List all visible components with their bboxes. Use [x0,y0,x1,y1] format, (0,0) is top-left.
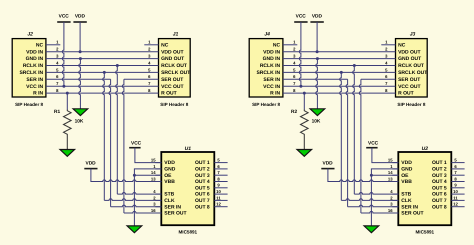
power symbol VDD (feeds U2 VBB pin 13) [321,161,334,169]
svg-text:VDD: VDD [164,160,175,166]
svg-text:10: 10 [216,189,221,194]
svg-text:SER OUT: SER OUT [398,77,420,83]
junction: OE joins GND drop [133,174,136,177]
wire row1 NC stub at J3 [381,44,395,46]
svg-text:OUT 5: OUT 5 [432,185,447,191]
wire row6 SER OUT segment to J1.6 [124,78,159,80]
svg-text:OUT 8: OUT 8 [195,204,210,210]
svg-text:13: 13 [388,176,393,181]
svg-text:OUT 1: OUT 1 [195,160,210,166]
junction: VDD rail on row 2 [316,50,319,53]
U2 pin numbers right side (5-12) [453,158,458,207]
svg-text:VDD: VDD [75,14,86,20]
wire into U2 SER IN pin 3 [348,205,399,207]
svg-text:J3: J3 [410,32,416,38]
svg-text:VDD: VDD [86,161,97,167]
svg-text:11: 11 [216,195,221,200]
svg-text:VBB: VBB [164,179,175,185]
svg-text:R IN: R IN [33,91,43,97]
wire row2 VDD: J2.2 to J1.2 [46,51,159,53]
svg-text:VDD OUT: VDD OUT [398,49,421,55]
power symbol VCC (top, feeds J2 VCC IN) [57,14,70,22]
svg-text:OUT 2: OUT 2 [432,167,447,173]
junction: OE joins GND drop [370,174,373,177]
wire row5 SRCLK: J4.5 to J3.5 [283,71,396,73]
wire U2 SER OUT up to row 6 (J3 SER OUT) [359,79,361,213]
wire GND drop from row 3 [316,59,318,109]
U2 pin numbers left side (15,1,14,13,4,2,3,16) [388,158,393,213]
wire row7 VCC: J4.7 to J3.7 [283,85,396,87]
connector J4 (SIP Header 8) [249,39,283,97]
junction: tap on row 5 [103,71,106,74]
connector J2 (SIP Header 8) [12,39,46,97]
svg-text:NC: NC [398,42,406,48]
svg-text:VCC IN: VCC IN [263,84,280,90]
wire row1 NC stub at J4 [283,44,297,46]
svg-text:MIC5891: MIC5891 [178,230,197,235]
svg-text:J2: J2 [27,32,33,38]
svg-text:GND OUT: GND OUT [398,56,421,62]
J3 pin numbers 1-8 [385,40,388,93]
svg-text:OUT 6: OUT 6 [432,192,447,198]
svg-text:RCLK OUT: RCLK OUT [398,63,424,69]
svg-text:OUT 7: OUT 7 [195,198,210,204]
power symbol VDD (top, feeds J4 VDD IN) [310,14,323,22]
svg-text:16: 16 [388,208,393,213]
svg-text:OUT 1: OUT 1 [432,160,447,166]
IC U2 MIC5891 [398,152,451,225]
svg-text:SER IN: SER IN [401,204,418,210]
junction: tap on row 5 [340,71,343,74]
power symbol VCC (feeds U1 VDD pin 15) [129,141,141,148]
svg-text:R1: R1 [54,109,60,115]
svg-text:12: 12 [453,202,458,207]
svg-text:R IN: R IN [270,91,280,97]
svg-text:VCC IN: VCC IN [26,84,43,90]
IC U1 MIC5891 [161,152,214,225]
power symbol VDD (feeds U1 VBB pin 13) [84,161,97,169]
junction: GND drop on row 3 [79,57,82,60]
junction: VDD rail on row 2 [79,50,82,53]
svg-text:OUT 4: OUT 4 [195,179,210,185]
connector J1 (SIP Header 8) [159,39,191,97]
svg-text:SRCLK IN: SRCLK IN [19,70,43,76]
svg-text:SER OUT: SER OUT [161,77,183,83]
svg-text:OUT 4: OUT 4 [432,179,447,185]
junction: R1 on row 8 [66,92,69,95]
wire VCC rail down to VCC IN row 7 [62,22,64,86]
svg-text:SER OUT: SER OUT [401,211,423,217]
wire SER tap: row 6 down to U2 SER IN [346,79,348,206]
svg-text:OUT 7: OUT 7 [432,198,447,204]
svg-text:SIP Header 8: SIP Header 8 [397,102,425,107]
wire U1 OE pin 14 stub to GND net [134,174,161,176]
svg-text:VDD: VDD [401,160,412,166]
wire VCC to U1 VDD pin 15 [135,148,161,163]
wire row6 SER OUT segment to J3.6 [361,78,396,80]
svg-text:SIP Header 8: SIP Header 8 [252,102,280,107]
ground symbol (below R1) [60,150,75,157]
svg-text:R OUT: R OUT [398,91,414,97]
wire row8 R: J4.8 to J3.8 [283,92,396,94]
U2 right pin stubs OUT1-OUT8 [451,163,464,207]
svg-text:OE: OE [164,173,172,179]
wire into U2 SER OUT pin 16 [361,211,398,213]
J1 pin numbers 1-8 [148,40,151,93]
svg-text:SER IN: SER IN [164,204,181,210]
ground symbol (below U2) [364,226,379,233]
svg-text:OUT 3: OUT 3 [195,173,210,179]
svg-text:VCC: VCC [59,14,70,20]
svg-text:VCC OUT: VCC OUT [161,84,184,90]
junction: R2 on row 8 [303,92,306,95]
junction: GND drop on row 3 [316,57,319,60]
wire row3 GND: J2.3 to J1.3 [46,58,159,60]
svg-text:SRCLK OUT: SRCLK OUT [161,70,190,76]
wire U1 GND pin 1 and OE pin 14 to ground [134,169,161,226]
wire SER tap: row 6 down to U1 SER IN [109,79,111,206]
svg-text:15: 15 [388,158,393,163]
svg-text:10K: 10K [75,118,84,124]
svg-text:VDD: VDD [323,161,334,167]
ground symbol (row 3 net) [310,109,325,116]
svg-text:16: 16 [151,208,156,213]
wire row2 VDD: J4.2 to J3.2 [283,51,396,53]
svg-text:R2: R2 [291,109,297,115]
wire VDD rail down to VDD IN row 2 [79,22,81,52]
svg-text:VDD: VDD [312,14,323,20]
svg-text:STB: STB [401,192,411,198]
svg-text:SER IN: SER IN [263,77,280,83]
wire U2 GND pin 1 and OE pin 14 to ground [371,169,398,226]
U1 pin numbers left side (15,1,14,13,4,2,3,16) [151,158,156,213]
svg-text:NC: NC [273,42,281,48]
wire U1 SER OUT up to row 6 (J1 SER OUT) [122,79,124,213]
svg-text:OUT 2: OUT 2 [195,167,210,173]
wire into U1 SER OUT pin 16 [124,211,161,213]
svg-text:RCLK OUT: RCLK OUT [161,63,187,69]
svg-text:14: 14 [388,170,393,175]
U1 pin numbers right side (5-12) [216,158,221,207]
svg-text:VCC OUT: VCC OUT [398,84,421,90]
svg-text:J1: J1 [173,32,179,38]
wire into U2 CLK pin 2 [341,199,398,201]
svg-text:OUT 3: OUT 3 [432,173,447,179]
svg-text:10: 10 [453,189,458,194]
U1 right pin stubs OUT1-OUT8 [214,163,227,207]
ground symbol (row 3 net) [73,109,88,116]
svg-text:SER IN: SER IN [26,77,43,83]
svg-text:U1: U1 [185,146,192,152]
U1 left pin stubs [155,163,161,213]
power symbol VCC (feeds U2 VDD pin 15) [366,141,378,148]
wire row4 RCLK: J2.4 to J1.4 [46,65,159,67]
svg-text:U2: U2 [422,146,429,152]
svg-text:GND IN: GND IN [26,56,44,62]
wire VCC to U2 VDD pin 15 [372,148,398,163]
wire row7 VCC: J2.7 to J1.7 [46,85,159,87]
wire RCLK tap: row 4 down to U1 STB [116,66,118,195]
svg-text:GND: GND [164,167,176,173]
junction: VCC rail on row 7 [62,85,65,88]
svg-text:VCC: VCC [131,141,142,147]
wire into U1 SER IN pin 3 [111,205,162,207]
wire row1 NC stub at J1 [144,44,158,46]
J2 pin numbers 1-8 [56,40,59,93]
wire into U2 STB pin 4 [354,193,398,195]
wire row3 GND: J4.3 to J3.3 [283,58,396,60]
svg-text:VDD IN: VDD IN [26,49,43,55]
svg-text:GND: GND [401,167,413,173]
wire row5 SRCLK: J2.5 to J1.5 [46,71,159,73]
svg-text:NC: NC [36,42,44,48]
svg-text:VDD IN: VDD IN [263,49,280,55]
svg-text:MIC5891: MIC5891 [415,230,434,235]
power symbol VDD (top, feeds J2 VDD IN) [73,14,86,22]
svg-text:RCLK IN: RCLK IN [23,63,44,69]
ground symbol (below U1) [127,226,142,233]
connector J3 (SIP Header 8) [396,39,428,97]
svg-text:VBB: VBB [401,179,412,185]
svg-text:SRCLK OUT: SRCLK OUT [398,70,427,76]
J4 pin numbers 1-8 [293,40,296,93]
wire VDD to U2 VBB pin 13 [328,169,398,182]
wire row8 R: J2.8 to J1.8 [46,92,159,94]
svg-text:RCLK IN: RCLK IN [260,63,281,69]
wire SRCLK tap: row 5 down to U2 CLK [340,72,342,200]
svg-text:VCC: VCC [368,141,379,147]
svg-text:VDD OUT: VDD OUT [161,49,184,55]
svg-text:VCC: VCC [296,14,307,20]
svg-text:OUT 8: OUT 8 [432,204,447,210]
svg-text:J4: J4 [264,32,270,38]
svg-text:R OUT: R OUT [161,91,177,97]
svg-text:GND IN: GND IN [263,56,281,62]
junction: tap on row 4 [116,64,119,67]
svg-text:CLK: CLK [164,198,175,204]
wire GND drop from row 3 [79,59,81,109]
svg-text:15: 15 [151,158,156,163]
wire into U1 CLK pin 2 [104,199,161,201]
svg-text:SIP Header 8: SIP Header 8 [160,102,188,107]
U2 left pin stubs [392,163,398,213]
wire row4 RCLK: J4.4 to J3.4 [283,65,396,67]
svg-text:OE: OE [401,173,409,179]
wire row1 NC stub at J2 [46,44,60,46]
svg-text:GND OUT: GND OUT [161,56,184,62]
svg-text:10K: 10K [312,118,321,124]
wire U2 OE pin 14 stub to GND net [371,174,398,176]
wire VCC rail down to VCC IN row 7 [299,22,301,86]
ground symbol (below R2) [297,150,312,157]
wire SRCLK tap: row 5 down to U1 CLK [103,72,105,200]
resistor R2 10K pulldown from row 8 [303,93,305,109]
svg-text:14: 14 [151,170,156,175]
svg-text:SRCLK IN: SRCLK IN [256,70,280,76]
svg-text:12: 12 [216,202,221,207]
svg-text:STB: STB [164,192,174,198]
resistor R1 10K pulldown from row 8 [66,93,68,109]
junction: tap on row 4 [353,64,356,67]
wire VDD to U1 VBB pin 13 [91,169,161,182]
svg-text:SER OUT: SER OUT [164,211,186,217]
svg-text:OUT 6: OUT 6 [195,192,210,198]
wire into U1 STB pin 4 [117,193,161,195]
svg-text:CLK: CLK [401,198,412,204]
power symbol VCC (top, feeds J4 VCC IN) [294,14,307,22]
svg-text:SIP Header 8: SIP Header 8 [15,102,43,107]
wire VDD rail down to VDD IN row 2 [316,22,318,52]
wire row6 SER: J4.6 to SER IN drop [283,78,348,80]
svg-text:OUT 5: OUT 5 [195,185,210,191]
svg-text:NC: NC [161,42,169,48]
wire row6 SER: J2.6 to SER IN drop [46,78,111,80]
svg-text:13: 13 [151,176,156,181]
wire RCLK tap: row 4 down to U2 STB [353,66,355,195]
junction: VCC rail on row 7 [299,85,302,88]
svg-text:11: 11 [453,195,458,200]
